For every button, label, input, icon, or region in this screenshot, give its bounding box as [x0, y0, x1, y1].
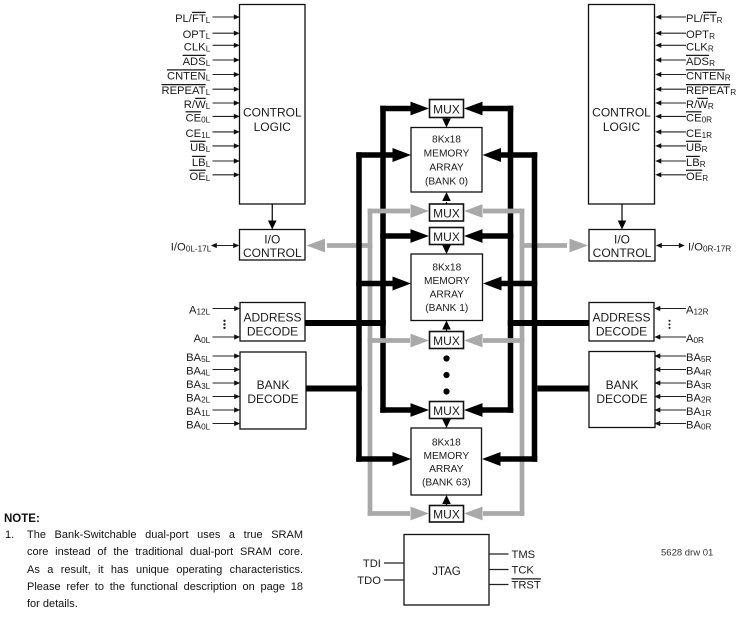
- pin label LB_L: [192, 156, 211, 169]
- label control logic (left): [243, 105, 302, 134]
- pin label TCK: [512, 565, 535, 577]
- svg-text:0R: 0R: [701, 423, 712, 432]
- svg-text:CE: CE: [186, 128, 202, 140]
- svg-text:JTAG: JTAG: [432, 566, 461, 578]
- svg-text:TRST: TRST: [512, 580, 541, 592]
- pin label REPEAT_R: [686, 85, 736, 98]
- wire control signal 1 (left): [213, 32, 236, 34]
- I/O control block (left): [240, 230, 306, 261]
- wire bank bus to bank1 (left): [356, 281, 393, 287]
- svg-text:BA: BA: [186, 393, 201, 405]
- svg-text:CNTEN: CNTEN: [167, 71, 206, 83]
- svg-text:MEMORY: MEMORY: [424, 276, 470, 287]
- wire control signal 6 (right): [661, 102, 687, 104]
- wire address input y=383 (right): [660, 382, 687, 384]
- pin label CE1_L: [186, 128, 211, 140]
- svg-text:BA: BA: [186, 406, 201, 418]
- memory array bank 63: [411, 428, 482, 495]
- svg-text:L: L: [206, 174, 211, 183]
- wire control signal 3 (right): [661, 59, 687, 61]
- svg-text:BA: BA: [186, 420, 201, 432]
- memory array bank 0: [411, 128, 482, 193]
- svg-text:R: R: [709, 59, 715, 68]
- pin label CNTEN_L: [167, 70, 211, 83]
- wire control signal 9 (right): [661, 145, 687, 147]
- svg-text:MUX: MUX: [433, 507, 460, 521]
- svg-text:OE: OE: [686, 171, 702, 183]
- bank decode block (right): [589, 352, 655, 428]
- wire address input y=337 (right): [660, 336, 687, 338]
- address mux bus vertical (right): [508, 106, 514, 413]
- svg-text:I/O: I/O: [614, 233, 630, 247]
- note heading: [4, 513, 40, 525]
- svg-text:REPEAT: REPEAT: [686, 85, 730, 97]
- gray data bus vertical (left): [368, 209, 373, 516]
- svg-text:2L: 2L: [201, 396, 211, 405]
- svg-text:BA: BA: [686, 379, 701, 391]
- wire control signal 8 (left): [213, 131, 236, 133]
- svg-text:ADS: ADS: [686, 56, 709, 68]
- svg-text:L: L: [206, 74, 211, 83]
- wire TCK: [489, 569, 509, 571]
- label control logic (right): [592, 105, 651, 134]
- svg-text:FT: FT: [703, 13, 717, 25]
- pin label CNTEN_R: [686, 70, 731, 83]
- svg-text:L: L: [206, 59, 211, 68]
- svg-text:ADDRESS: ADDRESS: [592, 310, 650, 324]
- wire control signal 11 (right): [661, 174, 687, 176]
- wire control signal 6 (left): [213, 102, 236, 104]
- pin label BA4R: [686, 366, 712, 378]
- svg-text:REPEAT: REPEAT: [162, 85, 206, 97]
- svg-text:0R: 0R: [694, 336, 705, 345]
- svg-text:(BANK 63): (BANK 63): [422, 477, 471, 488]
- wire TMS: [489, 553, 509, 555]
- wire address input y=396.5 (left): [213, 396, 236, 398]
- svg-text:R: R: [702, 174, 708, 183]
- svg-text:R: R: [730, 88, 736, 97]
- wire address input y=369.5 (right): [660, 369, 687, 371]
- address mux bus vertical (left): [380, 106, 386, 413]
- svg-text:PL/: PL/: [686, 13, 704, 25]
- wire address input y=337 (left): [213, 336, 236, 338]
- gray data bus vertical (right): [520, 209, 525, 516]
- gray data bus wire to I/O control (right): [520, 243, 567, 248]
- svg-text:BA: BA: [686, 366, 701, 378]
- svg-text:L: L: [206, 88, 211, 97]
- svg-text:L: L: [206, 16, 211, 25]
- svg-text:L: L: [206, 32, 211, 41]
- svg-text:LOGIC: LOGIC: [603, 120, 641, 134]
- wire address input y=410 (right): [660, 409, 687, 411]
- wire control signal 2 (left): [213, 44, 236, 46]
- label memory array bank 1: [424, 263, 470, 315]
- mux M3 (bank1 address mux): [430, 228, 464, 245]
- pin label PL/FT_R: [686, 12, 723, 25]
- pin label BA5R: [686, 352, 712, 364]
- svg-text:LB: LB: [192, 157, 206, 169]
- svg-text:I/O: I/O: [688, 242, 703, 254]
- svg-text:CE: CE: [186, 112, 202, 124]
- svg-text:LB: LB: [686, 157, 700, 169]
- pin label CLK_L: [184, 41, 211, 53]
- wire control signal 0 (right): [661, 16, 687, 18]
- gray wire to M2 (right): [483, 209, 524, 214]
- gray data bus wire to I/O control (left): [327, 243, 372, 248]
- svg-text:MUX: MUX: [433, 207, 460, 221]
- pin label R/W_R: [686, 98, 714, 111]
- svg-text:12L: 12L: [197, 308, 211, 317]
- wire control signal 0 (left): [213, 16, 236, 18]
- wire bank decode output (left): [306, 386, 362, 392]
- svg-text:MUX: MUX: [433, 230, 460, 244]
- svg-text:BA: BA: [686, 420, 701, 432]
- pin label OPT_L: [183, 29, 211, 41]
- svg-text:ARRAY: ARRAY: [430, 290, 465, 301]
- wire control signal 7 (right): [661, 115, 687, 117]
- svg-text:CE: CE: [686, 128, 702, 140]
- control logic block (right): [589, 5, 655, 205]
- svg-text:0L: 0L: [201, 423, 211, 432]
- label address decode (left): [243, 310, 301, 338]
- label I/O control (right): [593, 233, 652, 260]
- pin label BA1R: [686, 406, 712, 418]
- svg-text:LOGIC: LOGIC: [254, 120, 292, 134]
- wire address decode output (right): [508, 320, 589, 326]
- wire control signal 4 (left): [213, 74, 236, 76]
- wire I/O port (right): [660, 245, 682, 247]
- svg-text:8Kx18: 8Kx18: [432, 134, 461, 145]
- gray wire to M4 (right): [483, 338, 524, 343]
- svg-text:R: R: [700, 160, 706, 169]
- arrow M6 up to bank63: [446, 504, 448, 507]
- svg-text:MEMORY: MEMORY: [424, 148, 470, 159]
- svg-text:8Kx18: 8Kx18: [432, 263, 461, 274]
- label bank decode (left): [247, 378, 298, 406]
- wire bank bus to bank63 (left): [356, 456, 393, 462]
- wire address input y=308.5 (right): [660, 308, 687, 310]
- svg-text:12R: 12R: [694, 308, 709, 317]
- svg-text:TDO: TDO: [357, 575, 381, 587]
- I/O control block (right): [589, 230, 655, 262]
- wire address input y=423.5 (left): [213, 423, 236, 425]
- svg-text:CONTROL: CONTROL: [243, 105, 302, 119]
- wire address input y=383 (left): [213, 382, 236, 384]
- svg-text:BANK: BANK: [257, 378, 290, 392]
- svg-text:R/: R/: [184, 99, 196, 111]
- pin label BA1L: [186, 406, 211, 418]
- wire address input y=356 (right): [660, 355, 687, 357]
- arrow M5 to bank63: [446, 419, 448, 421]
- wire address input y=356 (left): [213, 355, 236, 357]
- svg-text:W: W: [195, 99, 206, 111]
- label address decode (right): [592, 310, 650, 338]
- pin label REPEAT_L: [162, 85, 211, 98]
- svg-text:L: L: [206, 145, 211, 154]
- wire bank bus to bank63 (right): [500, 456, 537, 462]
- svg-text:MUX: MUX: [433, 404, 460, 418]
- gray wire to M4 (left): [368, 338, 410, 343]
- wire bank decode output (right): [537, 386, 589, 392]
- svg-text:TDI: TDI: [363, 558, 381, 570]
- svg-text:1R: 1R: [702, 131, 713, 140]
- wire address input y=423.5 (right): [660, 423, 687, 425]
- arrow M3 to bank1: [446, 245, 448, 247]
- svg-text:R: R: [708, 44, 714, 53]
- svg-text:5628 drw 01: 5628 drw 01: [661, 548, 713, 559]
- svg-text:BA: BA: [686, 393, 701, 405]
- svg-text:MEMORY: MEMORY: [423, 451, 469, 462]
- svg-text:R: R: [725, 74, 731, 83]
- svg-text:BA: BA: [686, 352, 701, 364]
- svg-text:1R: 1R: [701, 409, 712, 418]
- svg-text:L: L: [206, 102, 211, 111]
- pin label R/W_L: [184, 98, 211, 111]
- pin label BA2L: [186, 393, 211, 405]
- pin label BA4L: [186, 366, 211, 378]
- svg-text:R: R: [709, 32, 715, 41]
- svg-text:W: W: [697, 99, 708, 111]
- svg-text:5L: 5L: [201, 355, 211, 364]
- pin label BA3R: [686, 379, 712, 391]
- pin label A12R: [686, 305, 709, 317]
- svg-text:DECODE: DECODE: [596, 324, 647, 338]
- wire control signal 4 (right): [661, 74, 687, 76]
- svg-text:3L: 3L: [201, 382, 211, 391]
- pin label LB_R: [686, 156, 706, 169]
- wire bank bus to bank1 (right): [500, 281, 537, 287]
- wire address input y=308.5 (left): [213, 308, 236, 310]
- svg-text:0L-17L: 0L-17L: [186, 245, 212, 254]
- pin label CE0_L: [186, 112, 211, 125]
- pin label ADS_L: [183, 55, 211, 68]
- svg-text:(BANK 0): (BANK 0): [425, 176, 468, 187]
- svg-text:CONTROL: CONTROL: [243, 246, 302, 260]
- pin label I/O0R-17R: [688, 242, 731, 254]
- pin label UB_R: [686, 141, 708, 154]
- mux M2 (bank0 data mux): [430, 204, 464, 221]
- svg-text:4R: 4R: [701, 369, 712, 378]
- pin label ADS_R: [686, 55, 715, 68]
- wire address input y=396.5 (right): [660, 396, 687, 398]
- pin label A12L: [189, 305, 211, 317]
- svg-text:R: R: [702, 145, 708, 154]
- JTAG block: [404, 535, 489, 606]
- svg-text:ARRAY: ARRAY: [429, 162, 464, 173]
- wire control signal 10 (right): [661, 160, 687, 162]
- wire mux bus to M1 (left): [380, 106, 411, 112]
- svg-text:UB: UB: [686, 142, 702, 154]
- wire bank bus to bank0 (left): [356, 152, 393, 158]
- pin label CE0_R: [686, 112, 712, 125]
- svg-text:R: R: [717, 16, 723, 25]
- svg-text:(BANK 1): (BANK 1): [425, 303, 468, 314]
- wire I/O port (left): [215, 245, 236, 247]
- svg-text:0R-17R: 0R-17R: [703, 245, 731, 254]
- svg-text:BA: BA: [186, 352, 201, 364]
- svg-text:I/O: I/O: [171, 242, 186, 254]
- svg-text:ARRAY: ARRAY: [429, 464, 464, 475]
- svg-text:0L: 0L: [201, 115, 211, 124]
- note item number: [5, 527, 14, 544]
- gray wire to M6 (left): [368, 511, 410, 516]
- bank decode block (left): [240, 352, 306, 429]
- svg-text:TMS: TMS: [512, 549, 536, 561]
- svg-text:1L: 1L: [201, 409, 211, 418]
- svg-text:0L: 0L: [201, 336, 211, 345]
- svg-text:OE: OE: [190, 171, 206, 183]
- wire control signal 1 (right): [661, 32, 687, 34]
- svg-text:0R: 0R: [702, 115, 713, 124]
- svg-text:UB: UB: [190, 142, 206, 154]
- svg-text:R: R: [708, 102, 714, 111]
- control logic block (left): [240, 5, 306, 205]
- svg-text:MUX: MUX: [433, 103, 460, 117]
- wire control signal 5 (right): [661, 88, 687, 90]
- wire address input y=369.5 (left): [213, 369, 236, 371]
- wire control signal 9 (left): [213, 145, 236, 147]
- wire mux bus to M5 (left): [380, 407, 411, 413]
- wire bank bus to bank0 (right): [500, 152, 537, 158]
- svg-text:CONTROL: CONTROL: [593, 246, 652, 260]
- svg-text:TCK: TCK: [512, 565, 535, 577]
- svg-text:DECODE: DECODE: [596, 392, 647, 406]
- wire TDO: [384, 579, 404, 581]
- svg-text:I/O: I/O: [264, 233, 280, 247]
- mux M5 (bank63 address mux): [430, 402, 464, 419]
- arrow M1 to bank0: [446, 118, 448, 120]
- address decode block (left): [240, 303, 305, 342]
- svg-text:L: L: [206, 160, 211, 169]
- pin label OE_R: [686, 170, 708, 183]
- svg-text:5R: 5R: [701, 355, 712, 364]
- bank select bus vertical (right): [532, 152, 538, 462]
- gray wire to M2 (left): [368, 209, 410, 214]
- pin label I/O0L-17L: [171, 242, 212, 254]
- bank select bus vertical (left): [356, 152, 362, 462]
- label I/O control (left): [243, 233, 302, 260]
- pin label CLK_R: [686, 41, 714, 53]
- mux M6 (bank63 data mux): [430, 506, 464, 523]
- wire mux bus to M1 (right): [482, 106, 513, 112]
- svg-text:L: L: [206, 44, 211, 53]
- svg-text:ADDRESS: ADDRESS: [243, 310, 301, 324]
- pin label TRST: [512, 579, 541, 592]
- mux M4 (bank1 data mux): [430, 332, 464, 349]
- wire address input y=410 (left): [213, 409, 236, 411]
- pin label UB_L: [190, 141, 211, 154]
- gray wire to M6 (right): [483, 511, 524, 516]
- pin label A0R: [686, 333, 704, 345]
- mux M1 (top address mux): [430, 100, 464, 118]
- pin label CE1_R: [686, 128, 712, 140]
- label memory array bank 63: [422, 438, 471, 489]
- wire control signal 10 (left): [213, 160, 236, 162]
- arrow M4 up to bank1: [446, 330, 448, 333]
- label bank decode (right): [596, 378, 647, 406]
- svg-text:2R: 2R: [701, 396, 712, 405]
- wire TDI: [384, 562, 404, 564]
- svg-text:BA: BA: [686, 406, 701, 418]
- pin label BA2R: [686, 393, 712, 405]
- memory array bank 1: [411, 254, 483, 321]
- svg-text:CLK: CLK: [184, 41, 206, 53]
- svg-text:ADS: ADS: [183, 56, 206, 68]
- pin label OE_L: [190, 170, 211, 183]
- pin label TMS: [512, 549, 536, 561]
- address decode block (right): [589, 303, 654, 342]
- arrow M2 up to bank0: [446, 202, 448, 205]
- pin label BA5L: [186, 352, 211, 364]
- wire TRST: [489, 584, 509, 586]
- pin label BA3L: [186, 379, 211, 391]
- pin label PL/FT_L: [175, 12, 211, 25]
- pin label BA0R: [686, 420, 712, 432]
- svg-text:BA: BA: [186, 379, 201, 391]
- svg-text:OPT: OPT: [686, 29, 709, 41]
- svg-text:CONTROL: CONTROL: [592, 105, 651, 119]
- svg-text:MUX: MUX: [433, 334, 460, 348]
- arrow control logic to I/O control (left): [271, 204, 273, 221]
- wire mux bus to M3 (right): [482, 233, 513, 239]
- svg-text:FT: FT: [192, 13, 206, 25]
- svg-text:OPT: OPT: [183, 29, 206, 41]
- wire control signal 11 (left): [213, 174, 236, 176]
- arrow control logic to I/O control (right): [621, 204, 623, 221]
- wire control signal 2 (right): [661, 44, 687, 46]
- pin label A0L: [194, 333, 211, 345]
- wire control signal 3 (left): [213, 59, 236, 61]
- wire control signal 8 (right): [661, 131, 687, 133]
- ellipsis dots center: [443, 355, 449, 394]
- svg-text:BA: BA: [186, 366, 201, 378]
- ellipsis dots address left: [223, 320, 225, 330]
- wire mux bus to M5 (right): [482, 407, 513, 413]
- label memory array bank 0: [424, 134, 470, 187]
- svg-text:4L: 4L: [201, 369, 211, 378]
- svg-text:DECODE: DECODE: [247, 392, 298, 406]
- wire address decode output (left): [305, 320, 386, 326]
- wire mux bus to M3 (left): [380, 233, 411, 239]
- note paragraph: [27, 527, 303, 613]
- pin label OPT_R: [686, 29, 715, 41]
- ellipsis dots address right: [668, 320, 670, 329]
- svg-text:1L: 1L: [201, 131, 211, 140]
- svg-text:CNTEN: CNTEN: [686, 71, 725, 83]
- svg-text:PL/: PL/: [175, 13, 193, 25]
- pin label TDO: [357, 575, 381, 587]
- svg-text:3R: 3R: [701, 382, 712, 391]
- wire control signal 7 (left): [213, 115, 236, 117]
- pin label BA0L: [186, 420, 211, 432]
- svg-text:CLK: CLK: [686, 41, 708, 53]
- svg-text:8Kx18: 8Kx18: [432, 438, 461, 449]
- svg-text:BANK: BANK: [606, 378, 639, 392]
- svg-text:DECODE: DECODE: [247, 324, 298, 338]
- svg-text:CE: CE: [686, 112, 702, 124]
- pin label TDI: [363, 558, 381, 570]
- wire control signal 5 (left): [213, 88, 236, 90]
